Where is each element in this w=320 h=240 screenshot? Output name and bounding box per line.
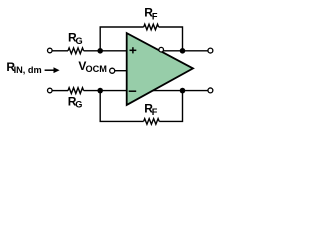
- svg-text:G: G: [76, 36, 83, 46]
- svg-text:F: F: [152, 11, 158, 21]
- svg-text:OCM: OCM: [86, 64, 108, 74]
- svg-text:G: G: [75, 100, 82, 110]
- svg-text:F: F: [152, 107, 158, 117]
- svg-text:IN, dm: IN, dm: [14, 65, 42, 75]
